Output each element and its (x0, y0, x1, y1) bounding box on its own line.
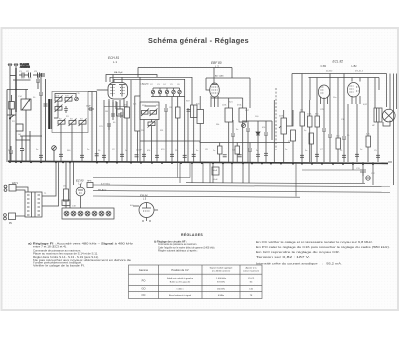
capacitor to bus x266 (264, 153, 268, 155)
wire transformer down (377, 122, 379, 162)
alignment table (129, 265, 263, 299)
antenna A2 (14, 64, 18, 68)
svg-text:GO: GO (18, 134, 22, 136)
detector wire (242, 120, 272, 122)
wire left edge down (6, 90, 8, 163)
wire mains to transformer (16, 187, 28, 192)
small box above chain (62, 200, 70, 206)
speaker LS (383, 109, 396, 122)
coupling network column resistor R9 (300, 112, 305, 126)
feedback return line (186, 183, 365, 184)
trimmer CT4 (172, 88, 175, 94)
svg-text:Ajuster à la: Ajuster à la (246, 267, 258, 270)
svg-text:5n: 5n (196, 150, 198, 152)
capacitor to bus x82 (80, 155, 84, 157)
svg-text:471-31.4: 471-31.4 (355, 71, 364, 73)
svg-text:220k: 220k (307, 114, 311, 116)
tube label ECH81 (108, 56, 119, 64)
capacitor C13 (342, 132, 346, 162)
wire to bus x30 (29, 140, 31, 162)
svg-text:47k: 47k (124, 105, 127, 107)
wire antenna 2 down (thick) (15, 68, 17, 112)
AVC comp box 1 (218, 143, 223, 163)
AVC line (140, 141, 290, 143)
output transformer T3 (374, 108, 382, 122)
svg-text:500k: 500k (279, 116, 283, 118)
svg-text:1n: 1n (213, 150, 215, 152)
capacitor C15p (187, 110, 191, 112)
wire eye right (154, 209, 158, 211)
wire secondary to rectifier (42, 162, 56, 196)
capacitor C9 (246, 121, 250, 162)
small box HPS (87, 181, 93, 188)
capacitor C16 (15pF) (86, 106, 94, 112)
capacitor to bus x96.7 (95, 154, 99, 156)
svg-text:50uF: 50uF (213, 170, 218, 172)
resistor R4 (176, 107, 181, 118)
wire branch row (13, 79, 31, 81)
filament chain box (62, 208, 114, 219)
svg-text:L 1: L 1 (113, 60, 117, 64)
IF transformer T1 box (191, 105, 198, 118)
svg-text:à la fibrille antenne: à la fibrille antenne (212, 269, 231, 272)
capacitor C3 (33, 71, 40, 78)
resistor R3 (135, 96, 140, 131)
svg-text:220 V: 220 V (12, 183, 18, 185)
svg-text:RÉGLAGES: RÉGLAGES (181, 232, 203, 237)
wire R15 down (310, 144, 312, 162)
wire R13 (367, 132, 369, 136)
wire cadre internal (55, 94, 76, 98)
wire S11 link (151, 120, 153, 123)
antenna A1 (8, 64, 12, 68)
wire drops from rails (302, 74, 397, 186)
capacitor C15 (360, 170, 366, 183)
trimmer CT2 (158, 88, 161, 94)
capacitor to bus x41 (39, 155, 43, 157)
wire R10 (309, 100, 311, 116)
wire x92 vertical (91, 92, 93, 163)
wire R8 down (292, 141, 294, 162)
fringe labels (8, 149, 377, 152)
HT line (93, 196, 300, 197)
coil L1a (55, 96, 63, 104)
svg-text:10n: 10n (333, 97, 336, 99)
capacitor to bus x258 (256, 154, 260, 156)
filament line 2 (93, 191, 390, 193)
wire eye left (133, 205, 139, 207)
wire junction row (7, 89, 28, 91)
svg-text:2n: 2n (256, 150, 258, 152)
top rail B+ (292, 73, 387, 75)
wire lower bank drops (109, 118, 122, 162)
wire drop group under bus (213, 162, 249, 183)
resistor R7 (239, 108, 247, 122)
svg-text:C.Bz: C.Bz (321, 64, 327, 68)
wire x140 bottom (139, 131, 141, 162)
svg-text:150pF: 150pF (136, 150, 142, 152)
svg-text:5n: 5n (304, 130, 306, 132)
resistor R13 (366, 136, 371, 147)
wire inside box (145, 105, 157, 107)
volume potentiometer P1 (279, 110, 287, 162)
capacitor C6a (44, 104, 48, 106)
wire antenna down (9, 68, 11, 162)
capacitor to bus x378 (376, 155, 380, 157)
wire T1 down (193, 118, 195, 163)
svg-text:47k: 47k (262, 127, 265, 129)
svg-text:Vérifier le calage de la bande: Vérifier le calage de la bande FI. (33, 264, 85, 268)
svg-text:1n: 1n (360, 149, 362, 151)
coil L3a (58, 119, 66, 127)
wire R6 (228, 122, 230, 162)
pins pentode (352, 96, 360, 104)
svg-text:15pF: 15pF (86, 106, 91, 108)
svg-text:Tension sur 0,82 : 187 V.: Tension sur 0,82 : 187 V. (256, 255, 310, 259)
capacitor to bus x157 (155, 155, 159, 157)
capacitor to bus x239.7 (238, 155, 242, 157)
coil S13 (141, 109, 149, 117)
wire R3 (136, 131, 138, 162)
svg-text:PO: PO (142, 278, 146, 282)
resistor R11 (315, 116, 320, 127)
wire drop x292 (291, 74, 293, 127)
svg-text:1n: 1n (52, 149, 54, 151)
wire band area down-drops (144, 97, 188, 163)
resistor R6 (225, 108, 233, 122)
resistor R12 (336, 138, 341, 149)
capacitor C7 (118, 112, 123, 118)
wire x131 long vertical (130, 80, 132, 162)
oscillator coil box (140, 102, 159, 120)
wire link top of resistors (211, 97, 243, 99)
wire switch row (7, 114, 16, 116)
wire R12 (337, 132, 339, 138)
capacitor to bus x317 (315, 154, 319, 156)
heater 5 (92, 211, 97, 216)
wire cadre top joins (88, 91, 97, 93)
svg-text:AV. CAG: AV. CAG (215, 75, 224, 78)
tube label ECL82 (321, 60, 358, 69)
wire R9 (301, 96, 303, 112)
svg-text:valeur maximum: valeur maximum (243, 269, 259, 272)
wire cadre internal 2 (54, 101, 58, 118)
resistor R5 (197, 110, 204, 124)
anode feed line (138, 67, 232, 69)
op ECH81 tube envelope (97, 83, 128, 100)
capacitor to bus x144 (142, 154, 146, 156)
trimmer wires drop (153, 94, 180, 97)
phono connector PU (4, 213, 16, 225)
svg-text:Intensité crête du courant ano: Intensité crête du courant anodique : 95… (256, 261, 342, 265)
wire right drops (353, 162, 373, 185)
svg-text:2n: 2n (87, 149, 89, 151)
note block right (256, 240, 390, 265)
wire x104-117 pins verticals (104, 100, 117, 162)
filament line 1 (93, 185, 390, 187)
wire R5 (199, 124, 201, 163)
svg-text:L.Bz: L.Bz (352, 64, 358, 68)
wire trimmer bus (151, 96, 185, 98)
wire R7 (242, 122, 244, 162)
wire bus end arrow (388, 161, 392, 163)
svg-text:470k: 470k (237, 105, 241, 107)
svg-text:PH. AU 2: PH. AU 2 (98, 189, 107, 192)
wire x96.7 vertical (96, 92, 98, 163)
grid dashes (111, 87, 115, 89)
op EZ80 rectifier tube (76, 184, 85, 196)
AVC cap 3 (248, 143, 252, 163)
svg-text:22k: 22k (133, 104, 136, 106)
capacitor C11 (322, 104, 326, 162)
svg-text:Régler suivant tableaux ci-apr: Régler suivant tableaux ci-après : (158, 249, 198, 252)
wire drops bus to feedback line (180, 162, 210, 183)
coil L3b (69, 119, 77, 127)
heater feed line to eye (93, 177, 190, 179)
svg-text:PO: PO (12, 121, 15, 123)
wire det down (271, 121, 273, 140)
coil L1b (65, 96, 73, 104)
note block a) left (28, 241, 134, 267)
wire R14 down (65, 201, 67, 208)
switch S1 (9, 115, 14, 119)
grid stopper box (117, 109, 124, 116)
capacitor C7a (64, 106, 68, 113)
wire pair x274 (273, 100, 275, 162)
wire pin header (104, 106, 127, 108)
capacitor C8 (164, 104, 168, 121)
svg-text:En OC vérifier le calage et si: En OC vérifier le calage et si nécessair… (256, 240, 373, 244)
svg-text:56k: 56k (216, 124, 219, 126)
small box B1 (16, 124, 23, 131)
svg-text:GO: GO (141, 287, 145, 291)
wire R2 down (126, 118, 128, 162)
trimmer CT3 (165, 88, 168, 94)
svg-text:ARRIERE: ARRIERE (20, 66, 30, 69)
coil S11 below box (148, 121, 156, 128)
tube pins EBF80 (211, 96, 218, 107)
wire x140 top (139, 77, 141, 96)
electrolytic C14 (212, 167, 219, 175)
svg-text:50uF: 50uF (213, 179, 218, 181)
cadre unit box (52, 92, 88, 133)
resistor R10 (308, 116, 313, 127)
svg-text:Gamme: Gamme (139, 268, 149, 272)
ground bus (chassis) (8, 161, 388, 163)
coil L2a (55, 105, 63, 113)
capacitor C10 (264, 121, 268, 162)
capacitor C4 (9, 146, 13, 162)
resistor R15 (309, 133, 314, 144)
op ECL82 pentode envelope (348, 83, 360, 98)
capacitor C22 (20, 136, 24, 162)
svg-text:6 MHz: 6 MHz (218, 295, 224, 297)
svg-text:47k: 47k (147, 150, 150, 152)
svg-text:1M: 1M (300, 110, 303, 112)
svg-text:1erS: 1erS (55, 96, 60, 98)
wire R14 up (65, 162, 67, 189)
svg-text:25k: 25k (141, 130, 144, 132)
coil L5 (frame aerial box) (21, 99, 31, 110)
svg-text:ECL 82: ECL 82 (333, 60, 344, 64)
wire drops heater feed (178, 162, 191, 178)
svg-text:1M: 1M (105, 111, 108, 113)
capacitor to bus x224.7 (223, 155, 227, 157)
svg-text:1n: 1n (125, 150, 127, 152)
coil S14 (150, 109, 158, 117)
svg-text:Signal modulé appliqué: Signal modulé appliqué (210, 268, 234, 270)
wire nested rail 1 (110, 77, 192, 105)
wire pu (16, 215, 26, 217)
top rail second (309, 77, 380, 79)
wire pentode cathode (356, 104, 358, 162)
wire cadre pins down (61, 124, 82, 162)
capacitor to bus x136.5 (135, 155, 139, 157)
capacitor to bus x104 (102, 155, 106, 157)
heater 4 (85, 211, 90, 216)
wire row y136 (20, 135, 42, 137)
wire feed drops (138, 68, 232, 79)
capacitor to bus x302 (300, 155, 304, 157)
svg-text:Butée au fil à gauche: Butée au fil à gauche (170, 281, 191, 284)
svg-text:5n: 5n (305, 150, 307, 152)
wire EZ80 down (80, 196, 82, 208)
wire left grid entry (97, 89, 108, 91)
power transformer T4 (25, 192, 42, 217)
wire pentode grid link (347, 104, 349, 162)
coil L3c (79, 119, 87, 127)
heater 7 (106, 211, 111, 216)
dial lamp 1 (64, 211, 69, 216)
wire antenna link (10, 75, 16, 77)
bus junction dots (9, 161, 374, 165)
trimmer on det line (242, 124, 246, 128)
mains connector 220V (4, 183, 18, 191)
wire volume to grid (287, 110, 294, 126)
svg-text:6,3 V bleu: 6,3 V bleu (101, 183, 110, 185)
note block b) middle (154, 240, 215, 252)
capacitor to bus x357 (355, 154, 359, 156)
capacitor C8b (111, 114, 115, 116)
svg-text:1 400 v: 1 400 v (176, 289, 184, 291)
svg-text:C1-C2: C1-C2 (248, 278, 255, 280)
capacitor C2 (24, 71, 31, 78)
svg-text:En GO reprendre le réglage du: En GO reprendre le réglage du noyau CR. (256, 250, 340, 254)
dial lamp 2 (71, 211, 76, 216)
op EM84 tube (139, 203, 154, 223)
wire lower left lattice (16, 131, 30, 140)
op EBF80 tube envelope (210, 83, 220, 97)
svg-text:PO: PO (66, 116, 69, 118)
capacitor to bus x122 (120, 154, 124, 156)
trimmer C23 (52, 146, 57, 162)
resistor R14 (64, 189, 69, 201)
capacitor to bus x172 (170, 154, 174, 156)
tube pins (109, 99, 124, 109)
svg-text:MA 15pF: MA 15pF (114, 71, 123, 74)
svg-text:1 400 kHz: 1 400 kHz (216, 278, 226, 280)
svg-text:1n: 1n (285, 149, 287, 151)
wire trimmer header (153, 87, 180, 89)
capacitor to bus x184.7 (183, 155, 187, 157)
resistor R2 (125, 107, 130, 118)
capacitor C3b (40, 73, 44, 77)
svg-text:HPS: HPS (87, 181, 92, 183)
wire R4 up (177, 97, 179, 108)
label EM84 (140, 194, 148, 201)
AVC comp box 2 (235, 143, 240, 163)
svg-text:40-350: 40-350 (326, 71, 333, 73)
svg-text:Soldé est calculé à gauche: Soldé est calculé à gauche (167, 277, 194, 280)
capacitor C17 (231, 120, 235, 162)
wire R4 down (177, 118, 179, 162)
heater 3 (78, 211, 83, 216)
wire anode top stubs (112, 75, 114, 83)
capacitor to bus x61 (59, 154, 63, 156)
wire drop x296 (295, 162, 297, 197)
diode D1 (256, 121, 260, 162)
capacitor to bus x193.7 (192, 154, 196, 156)
svg-text:4,7k: 4,7k (366, 134, 370, 136)
grid loop line (106, 75, 157, 83)
wire coil top (25, 90, 27, 100)
label plaque arriere (20, 63, 30, 69)
rail labels (326, 71, 364, 73)
wire power drops from bus (70, 162, 74, 208)
svg-text:OC: OC (142, 293, 146, 297)
svg-text:Position de CV: Position de CV (171, 268, 188, 272)
tube label EBF80 (211, 61, 222, 68)
svg-text:574 kHz: 574 kHz (217, 282, 225, 284)
capacitor C5 left stack (39, 73, 43, 162)
resistor R8 (291, 130, 296, 141)
capacitor to bus x344 (342, 155, 346, 157)
trimmer CT1 (151, 88, 154, 94)
svg-text:EM 84: EM 84 (140, 194, 148, 198)
trimmer CT5 (178, 88, 181, 94)
node dot (15, 89, 17, 91)
wire EBF80 top (206, 77, 250, 79)
svg-text:100k: 100k (222, 105, 226, 107)
ferrite rod bar (48, 99, 50, 129)
svg-text:En PO caler le réglage du C16: En PO caler le réglage du C16 puis retou… (256, 245, 390, 249)
capacitor C1 (19, 71, 24, 78)
svg-text:160 kHz: 160 kHz (217, 289, 225, 291)
wire R2 up (126, 101, 128, 107)
padder box CV1 (9, 95, 15, 115)
pins triode (321, 97, 328, 105)
trimmer CT7 (75, 97, 79, 101)
svg-text:5n: 5n (36, 149, 38, 151)
wire R11 (316, 100, 318, 116)
wire x45 (45, 79, 47, 162)
wire rail end drop (386, 74, 388, 108)
dial cord dashed link (275, 88, 277, 150)
svg-text:entre 7 et 18 (EC3 et 4).: entre 7 et 18 (EC3 et 4). (33, 244, 67, 248)
label EZ80 (76, 179, 84, 186)
capacitor C4b (36, 74, 40, 89)
wire nested rail 2 (114, 79, 185, 96)
svg-text:5n: 5n (236, 129, 238, 131)
B+ segment right (302, 169, 360, 171)
svg-text:Recul enfoncé à signal: Recul enfoncé à signal (169, 295, 192, 297)
svg-text:Schéma général - Réglages: Schéma général - Réglages (148, 36, 249, 45)
capacitor C12 (328, 84, 332, 162)
svg-text:PU: PU (9, 223, 13, 225)
fuse F1 (366, 176, 370, 180)
wire anode cap (213, 68, 215, 85)
wire from coil down (25, 110, 27, 162)
